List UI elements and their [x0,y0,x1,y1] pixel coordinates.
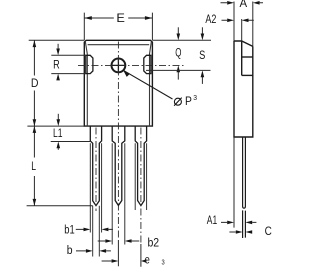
lead tip extension line [27,205,93,207]
dimension R [51,44,86,74]
dimension A1 [221,221,256,223]
svg-text:3: 3 [193,95,197,102]
dimension b2 [98,240,140,242]
dimension C [229,231,235,233]
lead 1 narrow extension lines [93,206,100,257]
dimension A [221,2,264,47]
svg-text:L1: L1 [53,128,63,140]
dimension E [84,13,152,41]
dimension L1 [51,114,91,150]
svg-text:P: P [185,96,192,108]
body outline (front view) [84,40,152,126]
svg-text:Q: Q [175,48,181,60]
dimension b1 [76,228,113,230]
body bottom extension line [27,125,84,127]
top edge extension lines [29,39,211,41]
dimension D and L line [33,40,35,205]
svg-text:A1: A1 [207,215,217,227]
horizontal centerline [78,64,185,66]
lead 2 [112,126,125,205]
svg-text:E: E [116,13,125,25]
centerline solid bottom segments [118,240,140,267]
lead 3 centerline [140,128,142,245]
svg-text:b: b [67,245,73,257]
hole diameter leader [123,70,172,99]
vertical centerline [117,42,119,241]
svg-text:D: D [31,78,39,90]
dimension S [146,27,211,84]
lead 3 wide extension lines [135,143,146,210]
lead 1 centerline [95,128,97,212]
svg-text:b2: b2 [147,238,159,250]
mounting hole [112,59,126,73]
side view lead lower [243,210,246,238]
lead 3 [135,126,146,206]
svg-text:R: R [53,60,60,72]
front face extension line lower [233,137,235,228]
right side boss [144,55,151,73]
dimension e [102,260,112,262]
svg-text:S: S [199,50,205,62]
dimension b [76,250,111,252]
lead 2 wide extension lines [112,143,125,244]
dimension A2 [222,19,254,41]
svg-text:C: C [265,226,272,238]
svg-text:b1: b1 [64,224,74,236]
dimension Q [177,27,179,79]
side view lead upper [243,137,246,208]
side view body [234,41,253,137]
svg-text:A: A [240,0,248,10]
svg-text:L: L [31,161,36,173]
svg-text:A2: A2 [205,14,216,26]
label diameter P [174,98,182,106]
lead 1 wide extension lines [90,143,101,232]
svg-text:3: 3 [162,259,165,266]
lead 1 [90,126,101,206]
hole center cross [112,59,126,73]
body inner mold lines [85,42,151,126]
svg-text:e: e [145,254,150,266]
left side boss [86,55,93,73]
